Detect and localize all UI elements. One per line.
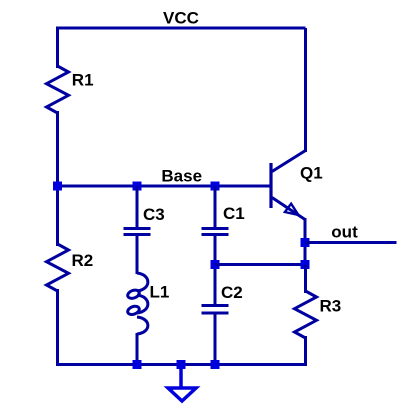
node bottom-gnd xyxy=(177,360,186,369)
capacitor C1 xyxy=(202,229,229,235)
node base-left xyxy=(53,182,62,191)
wire C3 upper xyxy=(136,186,139,228)
wire C1 upper xyxy=(214,186,217,228)
svg-text:C3: C3 xyxy=(143,205,165,224)
inductor L1 xyxy=(127,273,148,334)
resistor R2 xyxy=(47,244,69,291)
wire R3 bottom xyxy=(304,336,307,365)
wire L1 bottom xyxy=(136,333,139,365)
node base-C3 xyxy=(133,182,142,191)
wire mid rail xyxy=(215,263,306,266)
wire bottom rail xyxy=(56,363,307,366)
svg-text:R3: R3 xyxy=(320,297,342,316)
wire C2 bottom xyxy=(214,313,217,365)
svg-text:Base: Base xyxy=(161,166,202,185)
svg-text:C1: C1 xyxy=(223,204,245,223)
wire VCC top rail xyxy=(58,28,306,68)
resistor R3 xyxy=(295,291,317,338)
svg-text:C2: C2 xyxy=(221,283,243,302)
node base-C1 xyxy=(211,182,220,191)
transistor Q1 xyxy=(271,151,306,220)
wire left bottom xyxy=(56,289,59,365)
wire Base xyxy=(58,185,271,188)
wire C3-L1 xyxy=(136,235,139,275)
svg-text:out: out xyxy=(331,222,358,241)
node bottom-C2 xyxy=(211,360,220,369)
resistor R1 xyxy=(47,66,69,113)
svg-text:R1: R1 xyxy=(72,71,94,90)
node bottom-L1 xyxy=(133,360,142,369)
wire left mid xyxy=(56,111,59,246)
capacitor C3 xyxy=(124,229,151,235)
svg-text:R2: R2 xyxy=(72,251,94,270)
wire collector xyxy=(304,28,307,152)
node mid-C2 xyxy=(211,260,220,269)
wire out xyxy=(305,241,397,244)
svg-text:Q1: Q1 xyxy=(300,164,323,183)
node mid-right xyxy=(301,260,310,269)
capacitor C2 xyxy=(202,306,229,314)
wire R3 top xyxy=(304,265,307,294)
wire C1-C2 xyxy=(214,235,217,306)
ground xyxy=(168,365,196,402)
wire emitter drop xyxy=(304,218,307,265)
svg-text:VCC: VCC xyxy=(163,9,199,28)
node out xyxy=(301,238,310,247)
svg-text:L1: L1 xyxy=(150,283,170,302)
